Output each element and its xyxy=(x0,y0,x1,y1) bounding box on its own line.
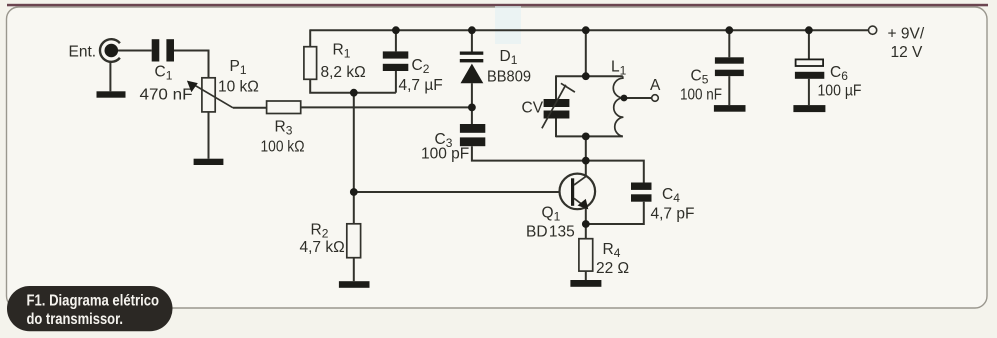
terminal A xyxy=(652,95,659,102)
node rail-tank xyxy=(582,26,590,34)
svg-text:BB809: BB809 xyxy=(487,69,531,86)
node rail-C5 xyxy=(725,26,733,34)
transistor Q1 xyxy=(560,174,596,210)
svg-text:8,2 kΩ: 8,2 kΩ xyxy=(321,64,366,81)
node collector-C3 xyxy=(582,157,590,165)
resistor R4 xyxy=(579,239,593,271)
wire: bias node down to base junction and R2 xyxy=(353,93,355,224)
resistor R1 xyxy=(304,47,317,80)
svg-text:470 nF: 470 nF xyxy=(140,87,193,104)
ground (C5) xyxy=(714,105,746,112)
svg-text:4,7 µF: 4,7 µF xyxy=(399,77,443,94)
wire: jack to ground xyxy=(109,62,111,92)
ground (C6) xyxy=(793,105,825,112)
wire: R4 to ground xyxy=(585,271,587,280)
node rail-C6 xyxy=(805,26,813,34)
svg-text:+ 9V/: + 9V/ xyxy=(888,26,925,43)
svg-text:4,7 kΩ: 4,7 kΩ xyxy=(300,239,345,256)
wire: C5 top to rail xyxy=(728,30,730,57)
potentiometer P1 xyxy=(187,78,233,112)
wire: R1 bottom to bias node xyxy=(310,79,396,92)
wire: D1 top to rail xyxy=(471,30,473,51)
node L1 tap xyxy=(621,95,628,102)
resistor R3 xyxy=(267,101,301,114)
svg-text:12 V: 12 V xyxy=(891,44,924,61)
node base junction xyxy=(350,188,358,196)
svg-text:CV: CV xyxy=(522,100,544,117)
capacitor C1 xyxy=(152,39,174,61)
wire: C6 top to rail xyxy=(808,30,810,59)
wire: C4 bottom to emitter node xyxy=(586,202,644,224)
svg-text:100 µF: 100 µF xyxy=(818,83,862,100)
node tank bottom xyxy=(582,133,590,141)
node rail-D1 xyxy=(468,26,476,34)
wire: input jack to C1 xyxy=(118,50,152,52)
wire: tank bottom to collector xyxy=(585,136,587,175)
wire: C6 bottom to ground xyxy=(808,79,810,105)
wire: C1 to P1 top xyxy=(174,51,209,78)
varactor diode D1 xyxy=(460,52,484,84)
svg-text:100 kΩ: 100 kΩ xyxy=(261,139,305,156)
node varicap (R3-D1-C3) xyxy=(468,104,476,112)
terminal +9V xyxy=(869,26,877,34)
wire: R3 to varicap node xyxy=(301,106,472,108)
capacitor C2 xyxy=(383,51,409,71)
wire: emitter node to R4 xyxy=(585,224,587,239)
variable capacitor CV xyxy=(542,83,575,128)
wire: tank top xyxy=(556,75,623,77)
ground (R2) xyxy=(339,281,370,288)
wire: L1 tap to terminal A xyxy=(624,97,652,99)
capacitor C5 xyxy=(715,57,744,76)
resistor R2 xyxy=(347,224,361,258)
wire: tank left below CV xyxy=(555,119,557,138)
svg-text:100 pF: 100 pF xyxy=(421,146,469,163)
node rail-C2 xyxy=(392,26,400,34)
electrolytic capacitor C6 xyxy=(795,59,824,78)
wire: rail corner down to R1 xyxy=(309,29,311,46)
wire: C2 top to rail xyxy=(395,30,397,51)
wire: P1 wiper to R3 xyxy=(233,107,267,109)
wire: base wire to Q1 xyxy=(354,191,571,193)
svg-text:BD 135: BD 135 xyxy=(526,224,575,241)
top maroon rule xyxy=(7,4,988,7)
ground (input jack) xyxy=(97,91,126,97)
ground (R4) xyxy=(570,280,601,287)
capacitor C3 xyxy=(460,124,485,146)
svg-text:100 nF: 100 nF xyxy=(680,87,722,104)
wire: tank bottom xyxy=(556,135,623,137)
wire: D1 anode down to C3 xyxy=(471,83,473,124)
svg-text:22 Ω: 22 Ω xyxy=(596,260,629,277)
svg-text:4,7 pF: 4,7 pF xyxy=(651,206,695,223)
wire: tank left above CV xyxy=(555,75,557,99)
inductor L1 xyxy=(613,76,623,136)
connector J input (Ent.) xyxy=(100,39,120,62)
svg-text:Ent.: Ent. xyxy=(69,44,97,61)
wire: C3 bottom to collector node and C4 top xyxy=(472,146,644,182)
wire: P1 bottom to ground xyxy=(208,112,210,159)
wire: C2 bottom xyxy=(395,71,397,93)
node tank top xyxy=(582,72,590,80)
wire: top supply rail xyxy=(310,29,868,31)
ground (P1) xyxy=(194,159,224,165)
wire: C5 bottom to ground xyxy=(728,76,730,105)
svg-text:F1. Diagrama elétrico: F1. Diagrama elétrico xyxy=(27,293,160,310)
svg-text:A: A xyxy=(650,77,661,94)
caption pill F1 xyxy=(7,286,173,331)
wire: R2 to ground xyxy=(353,258,355,282)
svg-text:do transmissor.: do transmissor. xyxy=(27,311,124,328)
wire: rail down to tank top xyxy=(585,30,587,76)
svg-text:10 kΩ: 10 kΩ xyxy=(218,79,259,96)
wire: Q1 emitter down to node xyxy=(585,208,587,225)
node bias (R1-C2 bottom) xyxy=(350,89,358,97)
capacitor C4 xyxy=(631,183,652,202)
node emitter xyxy=(582,220,590,228)
